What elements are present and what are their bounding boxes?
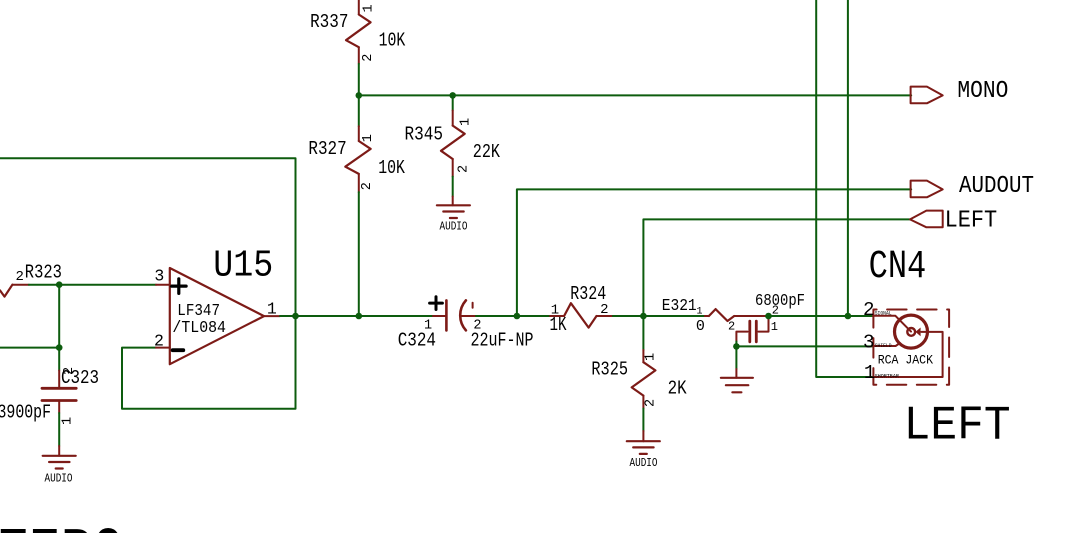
wire left at C323 node — [0, 347, 59, 349]
svg-text:/TL084: /TL084 — [172, 319, 226, 338]
wire main line seg1 — [280, 315, 433, 317]
svg-text:1: 1 — [361, 134, 376, 142]
port LEFT — [910, 211, 943, 228]
port MONO — [911, 87, 943, 104]
junction bus2/main — [845, 313, 852, 320]
svg-text:1: 1 — [61, 417, 76, 425]
svg-text:R327: R327 — [308, 138, 346, 160]
svg-text:2: 2 — [473, 319, 481, 334]
junction MONO/R345 — [449, 92, 456, 99]
svg-text:1: 1 — [697, 307, 703, 318]
svg-text:U15: U15 — [213, 246, 273, 288]
svg-text:2: 2 — [644, 399, 659, 407]
capacitor C323 — [42, 371, 76, 456]
svg-text:RCA JACK: RCA JACK — [878, 353, 933, 368]
svg-text:LEFT: LEFT — [945, 207, 998, 234]
wire op-amp top loop — [0, 158, 296, 316]
svg-text:0: 0 — [696, 318, 705, 335]
wire LEFT net — [643, 219, 909, 316]
wire vertical bus 1 — [816, 0, 873, 377]
svg-text:1: 1 — [864, 362, 876, 384]
junction AUDOUT/main — [514, 313, 521, 320]
svg-text:1: 1 — [361, 4, 376, 12]
svg-text:AUDIO: AUDIO — [45, 472, 73, 486]
junction R327/main — [356, 313, 363, 320]
wire R323 to op-amp pin3 — [29, 284, 156, 286]
svg-text:LEFT: LEFT — [904, 399, 1011, 453]
wire AUDOUT net — [517, 189, 911, 316]
junction MONO/R337/R327 — [356, 92, 363, 99]
capacitor C324 — [430, 297, 476, 331]
connector CN4 dashed box — [873, 310, 949, 385]
junction C323 node — [56, 344, 63, 351]
svg-text:R345: R345 — [405, 124, 444, 146]
wire C323 node down — [58, 348, 60, 371]
svg-text:AUDOUT: AUDOUT — [959, 173, 1034, 200]
svg-text:6800pF: 6800pF — [755, 292, 805, 311]
wire shield to CN4 pin3 — [736, 345, 873, 347]
svg-text:2: 2 — [361, 54, 376, 62]
svg-text:1: 1 — [644, 353, 659, 361]
port AUDOUT — [911, 181, 943, 198]
ground (6800pF) — [721, 369, 753, 392]
svg-text:1: 1 — [551, 303, 559, 319]
svg-text:R323: R323 — [25, 262, 62, 284]
ground AUDIO (R345) — [437, 205, 470, 218]
svg-text:SHORTBAR: SHORTBAR — [875, 373, 900, 380]
svg-text:CN4: CN4 — [869, 245, 927, 290]
resistor R345 — [441, 95, 465, 205]
junction LEFT/main — [640, 313, 647, 320]
resistor R323 (partial) — [0, 285, 29, 297]
wire shield node down — [735, 346, 737, 369]
resistor R327 — [345, 95, 370, 316]
ground AUDIO (C323) — [43, 456, 76, 469]
wire feedback loop — [122, 316, 296, 409]
svg-text:2K: 2K — [668, 378, 687, 400]
RCA jack symbol — [873, 315, 943, 377]
junction R323 node — [56, 281, 63, 288]
svg-text:1: 1 — [771, 320, 778, 334]
junction shield node — [733, 343, 740, 350]
svg-text:3: 3 — [154, 267, 164, 286]
svg-text:1: 1 — [424, 319, 432, 334]
svg-text:2: 2 — [600, 302, 608, 318]
svg-text:3900pF: 3900pF — [0, 402, 51, 424]
svg-text:SIGNAL: SIGNAL — [875, 310, 892, 317]
svg-text:2: 2 — [154, 331, 164, 350]
svg-text:AUDIO: AUDIO — [440, 220, 468, 234]
ground AUDIO (R325) — [627, 441, 660, 454]
svg-text:E321: E321 — [662, 296, 697, 315]
resistor R325 — [632, 316, 656, 441]
op-amp U15 — [156, 268, 280, 364]
wire main line seg2 — [476, 315, 550, 317]
svg-text:2: 2 — [456, 165, 471, 173]
junction E321/cap node — [765, 313, 772, 320]
junction op-amp output — [292, 313, 299, 320]
resistor R337 — [346, 0, 371, 95]
svg-text:2: 2 — [728, 320, 735, 334]
svg-text:10K: 10K — [379, 30, 406, 52]
capacitor 6800pF — [736, 316, 768, 346]
svg-text:R337: R337 — [310, 11, 348, 33]
svg-text:ZERO: ZERO — [0, 517, 124, 533]
svg-text:SHIELD: SHIELD — [875, 342, 892, 349]
svg-text:1: 1 — [267, 300, 277, 319]
wire main line seg3 — [613, 315, 705, 317]
svg-text:2: 2 — [863, 299, 875, 321]
wire vertical bus 2 — [847, 0, 849, 316]
svg-text:R325: R325 — [591, 359, 628, 381]
svg-text:AUDIO: AUDIO — [630, 456, 658, 470]
resistor E321 — [705, 309, 769, 321]
svg-text:2: 2 — [62, 367, 77, 375]
wire down to C323 node — [58, 285, 60, 348]
svg-text:2: 2 — [360, 182, 375, 190]
resistor R324 — [550, 303, 613, 327]
svg-text:22K: 22K — [473, 141, 500, 163]
wire main line seg4 (to CN4 pin2) — [769, 315, 874, 317]
svg-text:1: 1 — [458, 118, 473, 126]
svg-text:MONO: MONO — [957, 78, 1008, 105]
svg-text:3: 3 — [863, 332, 875, 354]
svg-text:2: 2 — [16, 269, 24, 285]
wire MONO net horizontal — [359, 94, 911, 96]
svg-text:10K: 10K — [378, 157, 405, 179]
